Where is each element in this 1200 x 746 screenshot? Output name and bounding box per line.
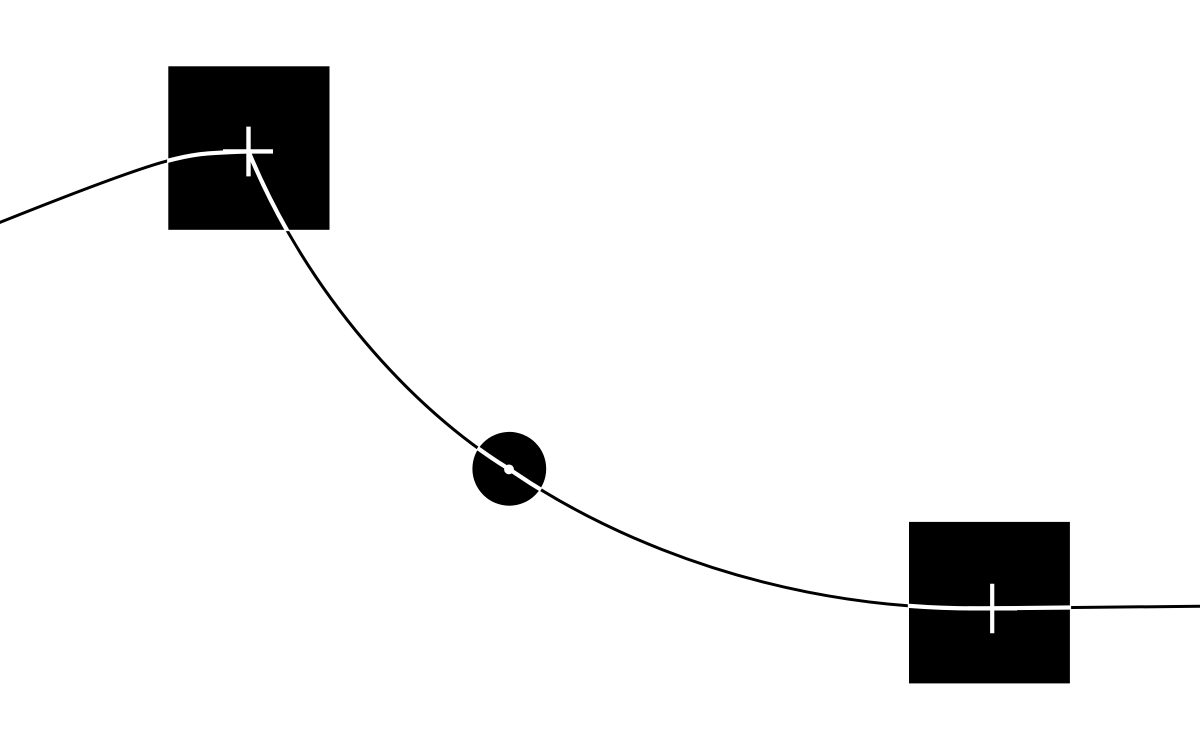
spline curve (black, outside shapes) [0,151,1200,608]
handle square 1 (top-left anchor) [168,66,329,230]
crosshair 1 [223,127,273,177]
crosshair 2 [967,584,1017,633]
spline curve (white, inside shapes) [0,151,1200,608]
center dot of circle [504,465,514,475]
control circle (mid point) [472,432,546,506]
handle square 2 (bottom-right anchor) [909,522,1070,684]
